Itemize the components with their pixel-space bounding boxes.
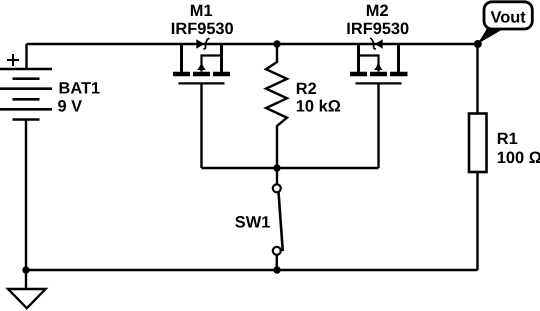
wire right rail bottom (476, 172, 478, 270)
wire bottom rail (26, 269, 478, 271)
svg-text:IRF9530: IRF9530 (171, 20, 234, 38)
ground (8, 289, 46, 308)
node Vout (474, 40, 482, 48)
resistor R2 (266, 44, 287, 168)
wire M1 gate (200, 83, 202, 168)
switch SW1 (273, 168, 283, 270)
svg-text:IRF9530: IRF9530 (346, 20, 409, 38)
wire ground stem (25, 270, 27, 289)
flag Vout (478, 2, 533, 44)
svg-text:M2: M2 (366, 2, 389, 20)
node gate junction (273, 164, 280, 171)
battery BAT1 (0, 54, 52, 120)
svg-text:9 V: 9 V (58, 97, 83, 115)
wire left rail top (battery + lead) (25, 44, 27, 69)
node SW1 bottom junction (273, 266, 280, 273)
svg-text:M1: M1 (190, 2, 213, 20)
resistor R1 (469, 114, 487, 173)
svg-text:R1: R1 (497, 130, 518, 148)
wire left rail bottom (25, 120, 27, 271)
svg-text:SW1: SW1 (235, 214, 271, 232)
node ground junction (22, 266, 29, 273)
svg-text:100 Ω: 100 Ω (497, 149, 540, 167)
svg-text:BAT1: BAT1 (59, 79, 101, 97)
transistor M1 (173, 39, 230, 84)
wire gate bus (202, 167, 379, 169)
svg-text:Vout: Vout (491, 9, 527, 27)
wire M2 gate (377, 83, 379, 168)
svg-text:R2: R2 (296, 80, 317, 98)
wire right rail top (476, 44, 478, 114)
svg-text:10 kΩ: 10 kΩ (296, 97, 341, 115)
transistor M2 (350, 38, 408, 83)
node R2 top (273, 40, 280, 47)
wire top rail (27, 43, 478, 45)
